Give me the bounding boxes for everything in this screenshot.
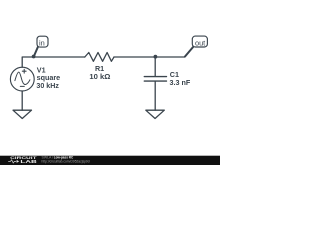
- svg-text:out: out: [195, 38, 205, 47]
- svg-text:CIRCUIT: CIRCUIT: [10, 156, 38, 160]
- svg-text:10 kΩ: 10 kΩ: [89, 72, 110, 81]
- svg-text:LAB: LAB: [20, 159, 37, 165]
- svg-text:in: in: [39, 38, 45, 47]
- svg-text:30 kHz: 30 kHz: [36, 81, 59, 90]
- svg-text:http://circuitlab.com/c/952azj: http://circuitlab.com/c/952azjsp9d: [42, 158, 90, 163]
- svg-text:3.3 nF: 3.3 nF: [170, 78, 191, 87]
